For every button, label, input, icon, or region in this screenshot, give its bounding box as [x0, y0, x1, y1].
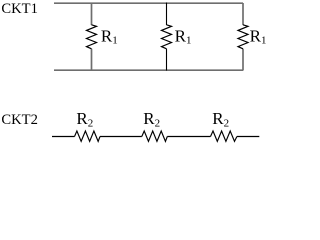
svg-text:CKT1: CKT1 [1, 1, 37, 17]
svg-text:CKT2: CKT2 [1, 112, 37, 128]
